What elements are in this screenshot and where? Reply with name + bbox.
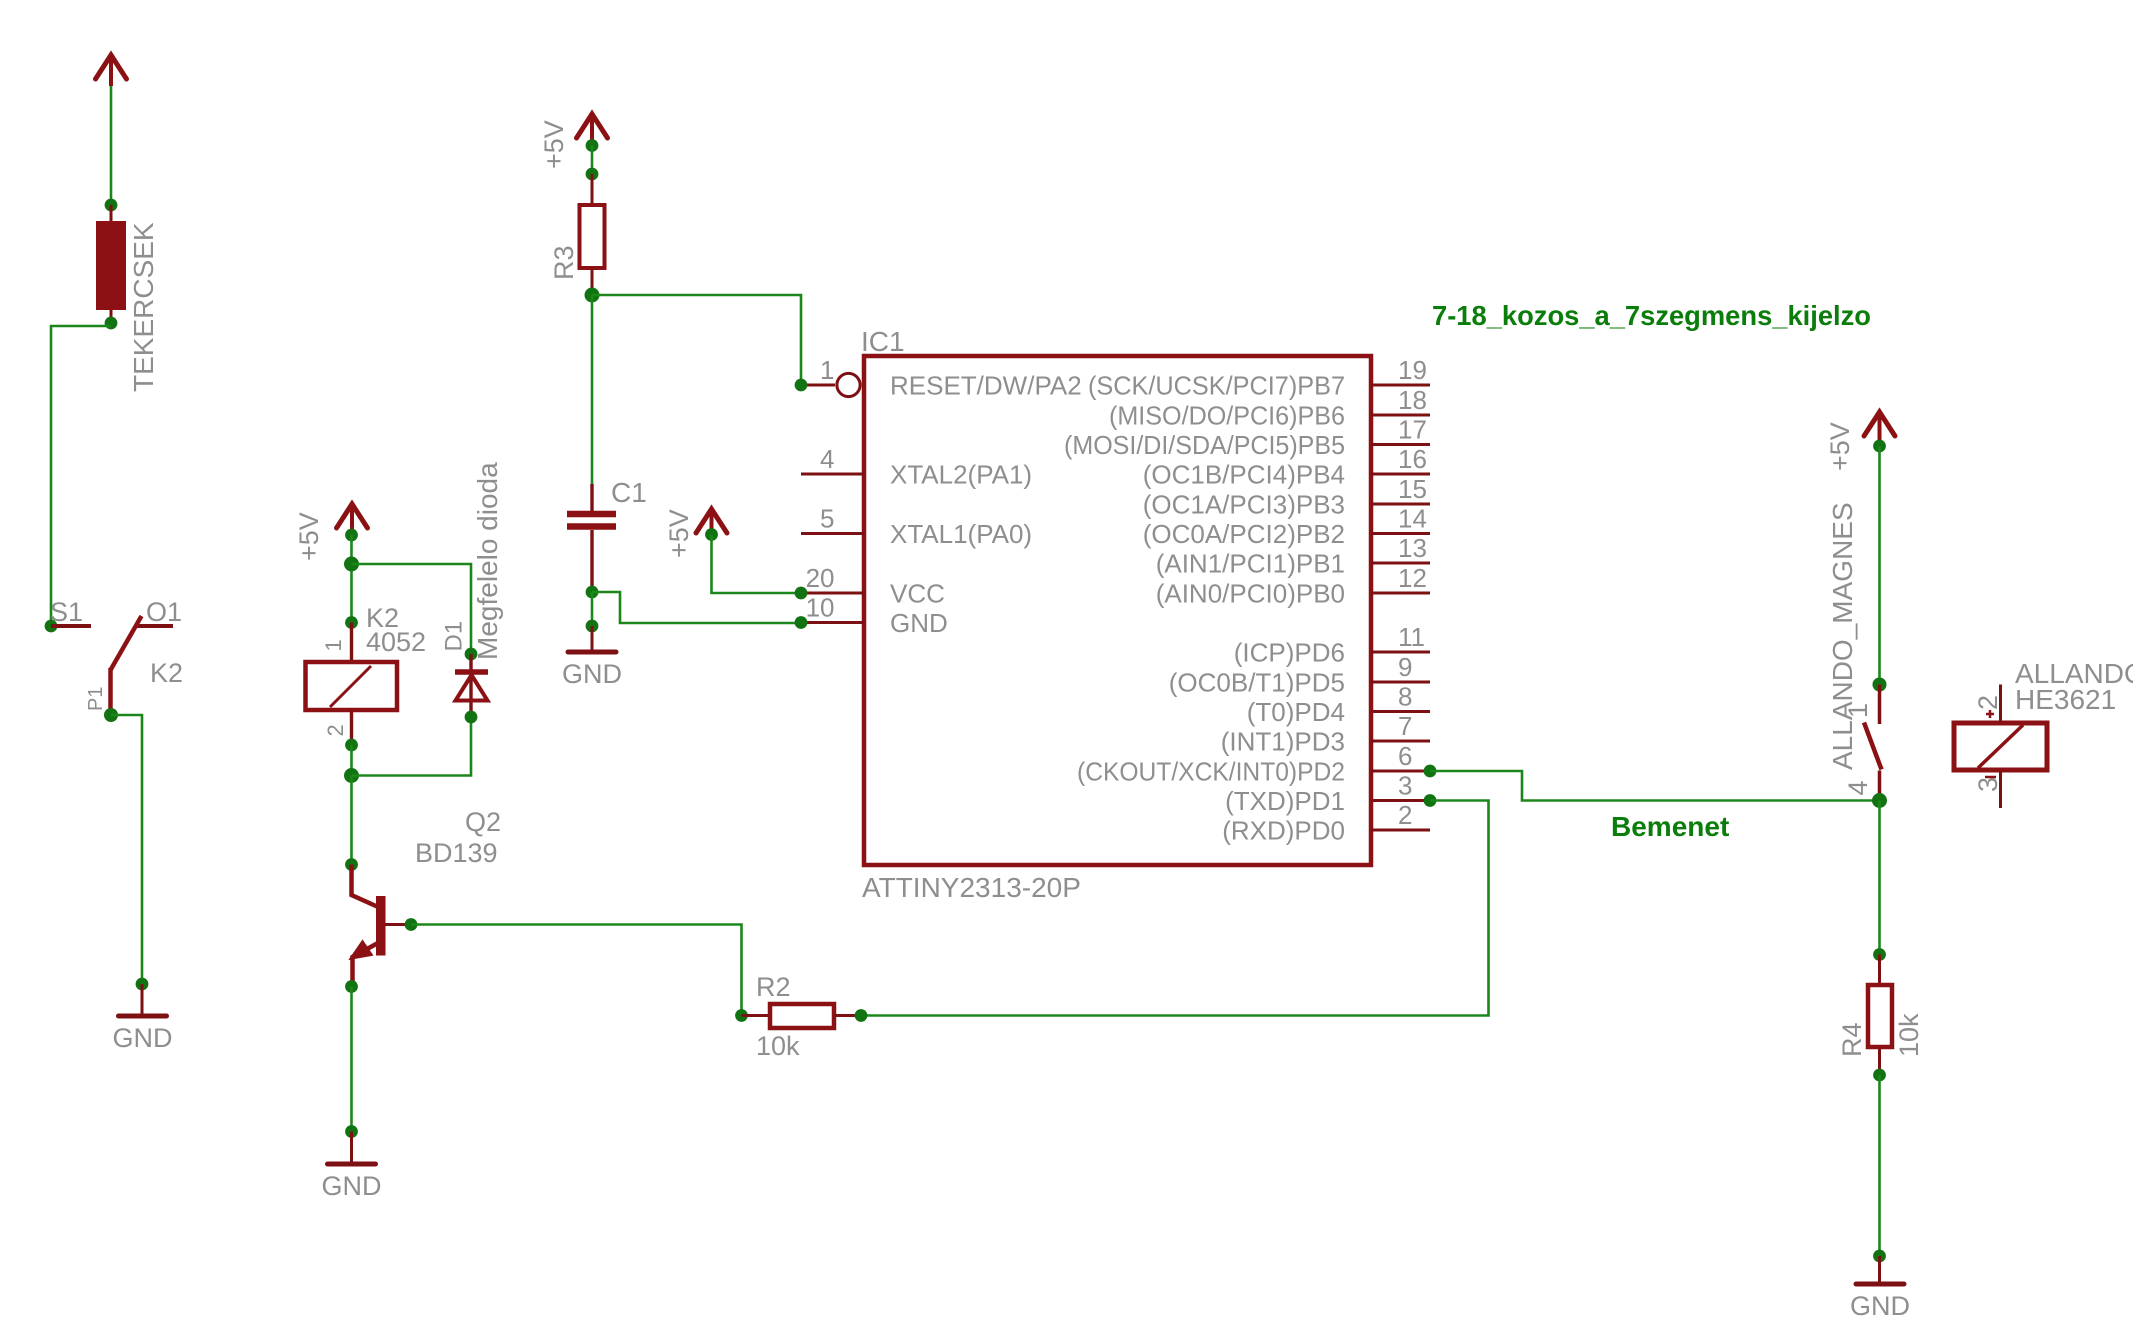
resistor R2 10k — [742, 1014, 771, 1017]
svg-text:R4: R4 — [1837, 1022, 1867, 1057]
IC U1 ATTINY2313-20P body — [864, 356, 1371, 865]
svg-text:Bemenet: Bemenet — [1611, 811, 1729, 842]
power +5V arrow (R3) — [590, 116, 594, 145]
wire R3 to C1 — [591, 295, 594, 484]
svg-text:7-18_kozos_a_7szegmens_kijelzo: 7-18_kozos_a_7szegmens_kijelzo — [1432, 300, 1871, 331]
node above C1 ground — [586, 620, 599, 633]
svg-text:3: 3 — [1398, 771, 1412, 801]
resistor R3 — [591, 174, 594, 205]
svg-text:GND: GND — [562, 659, 622, 689]
IC1 pin 14 (OC0A/PCI2)PB2 — [1371, 532, 1430, 535]
IC1 pin 19 (SCK/UCSK/PCI7)PB7 — [1371, 384, 1430, 387]
wire R4 to ground — [1878, 1075, 1881, 1256]
IC1 pin 16 (OC1B/PCI4)PB4 — [1371, 473, 1430, 476]
node R3 bottom junction — [585, 288, 600, 303]
svg-text:3: 3 — [1973, 777, 2003, 792]
ground (below C1) — [568, 650, 616, 655]
IC1 pin 11 (ICP)PD6 — [1371, 651, 1430, 654]
svg-text:+5V: +5V — [1825, 422, 1855, 471]
node: coil bottom junction — [105, 317, 118, 330]
resistor R4 10k — [1878, 955, 1881, 986]
power +5V arrow (VCC) — [710, 511, 714, 540]
node below +5V arrow — [345, 529, 358, 542]
svg-text:S1: S1 — [50, 597, 83, 627]
svg-text:D1: D1 — [441, 621, 468, 652]
svg-text:(TXD)PD1: (TXD)PD1 — [1225, 786, 1345, 816]
IC1 pin 18 (MISO/DO/PCI6)PB6 — [1371, 414, 1430, 417]
power +5V supply arrow (above TEKERCSEK) — [109, 57, 113, 86]
svg-text:O1: O1 — [146, 597, 182, 627]
ground (below S1) — [119, 1014, 167, 1019]
IC1 pin 6 (CKOUT/XCK/INT0)PD2 — [1371, 770, 1430, 773]
svg-text:ATTINY2313-20P: ATTINY2313-20P — [862, 872, 1081, 903]
svg-text:(CKOUT/XCK/INT0)PD2: (CKOUT/XCK/INT0)PD2 — [1077, 757, 1345, 787]
svg-text:8: 8 — [1398, 682, 1412, 712]
svg-text:(MOSI/DI/SDA/PCI5)PB5: (MOSI/DI/SDA/PCI5)PB5 — [1064, 430, 1345, 460]
svg-text:12: 12 — [1398, 563, 1427, 593]
svg-text:(INT1)PD3: (INT1)PD3 — [1221, 727, 1345, 757]
svg-text:(AIN1/PCI1)PB1: (AIN1/PCI1)PB1 — [1156, 549, 1345, 579]
power +5V arrow (ALLANDO_MAGNES) — [1878, 414, 1882, 443]
svg-text:(SCK/UCSK/PCI7)PB7: (SCK/UCSK/PCI7)PB7 — [1088, 371, 1345, 401]
wire R3 to IC pin1 (RESET) — [592, 295, 801, 385]
svg-text:GND: GND — [890, 608, 948, 638]
svg-text:(OC1A/PCI3)PB3: (OC1A/PCI3)PB3 — [1143, 490, 1345, 520]
IC1 pin 17 (MOSI/DI/SDA/PCI5)PB5 — [1371, 443, 1430, 446]
wire +5V to relay pin 1 — [350, 535, 353, 623]
svg-text:BD139: BD139 — [415, 838, 498, 868]
svg-text:TEKERCSEK: TEKERCSEK — [128, 222, 159, 392]
svg-text:6: 6 — [1398, 741, 1412, 771]
diode D1 (Megfelelo dioda) — [465, 648, 478, 661]
node reed pin4 / Bemenet junction — [1872, 793, 1887, 808]
svg-text:Q2: Q2 — [465, 807, 501, 837]
svg-text:18: 18 — [1398, 385, 1427, 415]
node R4 top — [1873, 948, 1886, 961]
node R2 right — [855, 1009, 868, 1022]
inductor TEKERCSEK (coil) — [110, 205, 113, 221]
node P1 — [104, 708, 118, 722]
node above Q2 ground — [345, 1125, 358, 1138]
IC1 pin 8 (T0)PD4 — [1371, 710, 1430, 713]
svg-text:19: 19 — [1398, 355, 1427, 385]
svg-text:C1: C1 — [611, 477, 647, 508]
svg-text:13: 13 — [1398, 533, 1427, 563]
IC1 pin 7 (INT1)PD3 — [1371, 740, 1430, 743]
svg-text:ALLANDO_MAGNES: ALLANDO_MAGNES — [1827, 502, 1858, 770]
svg-text:HE3621: HE3621 — [2015, 684, 2116, 715]
IC1 pin 3 (TXD)PD1 — [1371, 799, 1430, 802]
svg-text:GND: GND — [322, 1171, 382, 1201]
IC1 pin 9 (OC0B/T1)PD5 — [1371, 681, 1430, 684]
svg-text:(RXD)PD0: (RXD)PD0 — [1222, 816, 1345, 846]
IC1 pin 1 RESET/DW/PA2 — [801, 384, 835, 387]
wire to R3 — [591, 146, 594, 175]
node relay pin2 — [345, 739, 358, 752]
svg-text:5: 5 — [820, 504, 834, 534]
svg-text:1: 1 — [820, 355, 834, 385]
svg-text:XTAL2(PA1): XTAL2(PA1) — [890, 460, 1032, 490]
svg-text:(MISO/DO/PCI6)PB6: (MISO/DO/PCI6)PB6 — [1109, 401, 1345, 431]
switch ALLANDO_MAGNES reed contact — [1873, 678, 1887, 692]
node: coil top junction — [105, 199, 118, 212]
node base — [405, 918, 418, 931]
node: diode return junction — [344, 768, 359, 783]
wire pin3 TXD to R2 — [861, 801, 1489, 1016]
svg-text:(OC1B/PCI4)PB4: (OC1B/PCI4)PB4 — [1143, 460, 1345, 490]
wire emitter to ground — [350, 987, 353, 1132]
svg-text:GND: GND — [1850, 1291, 1910, 1321]
node relay pin1 — [345, 616, 358, 629]
svg-text:20: 20 — [806, 563, 835, 593]
IC1 pin 12 (AIN0/PCI0)PB0 — [1371, 592, 1430, 595]
node emitter — [345, 980, 358, 993]
wire C1 to ground — [591, 592, 594, 626]
IC1 pin 13 (AIN1/PCI1)PB1 — [1371, 562, 1430, 565]
svg-text:P1: P1 — [85, 687, 107, 711]
svg-text:+5V: +5V — [294, 512, 324, 561]
svg-text:2: 2 — [323, 724, 348, 736]
IC1 pin 4 XTAL2(PA1) — [801, 473, 864, 476]
svg-text:IC1: IC1 — [861, 326, 905, 357]
switch contact O1 — [136, 624, 173, 628]
svg-text:(ICP)PD6: (ICP)PD6 — [1234, 638, 1345, 668]
node above left ground — [136, 978, 149, 991]
node R3 pin1 — [586, 168, 599, 181]
svg-text:10k: 10k — [1894, 1013, 1924, 1057]
ground (below Q2) — [328, 1162, 376, 1167]
node C1 bottom — [586, 586, 599, 599]
svg-text:(T0)PD4: (T0)PD4 — [1247, 697, 1345, 727]
node R2 left — [735, 1009, 748, 1022]
svg-text:Megfelelo dioda: Megfelelo dioda — [472, 462, 503, 660]
relay ALLANDO HE3621 body — [1954, 723, 2047, 770]
svg-text:17: 17 — [1398, 415, 1427, 445]
svg-text:XTAL1(PA0): XTAL1(PA0) — [890, 519, 1032, 549]
relay coil K2 4052 — [350, 623, 353, 663]
wire pin6 PD2 to reed switch (Bemenet net) — [1430, 771, 1880, 801]
node below arrow — [586, 139, 599, 152]
svg-text:(AIN0/PCI0)PB0: (AIN0/PCI0)PB0 — [1156, 579, 1345, 609]
svg-text:4: 4 — [1843, 780, 1873, 795]
switch contact S1 — [45, 620, 58, 633]
IC1 pin 20 VCC — [801, 592, 864, 595]
node collector — [345, 858, 358, 871]
svg-text:16: 16 — [1398, 444, 1427, 474]
wire reed switch to R4 — [1878, 801, 1881, 955]
transistor Q2 BD139 — [376, 896, 386, 956]
switch K2 lever — [111, 616, 142, 670]
svg-text:1: 1 — [321, 639, 346, 651]
node below VCC arrow — [705, 528, 718, 541]
wire P1 to ground — [111, 715, 142, 984]
wire branch to D1 top — [352, 564, 472, 654]
svg-text:4052: 4052 — [366, 627, 426, 657]
svg-text:K2: K2 — [150, 658, 183, 688]
svg-text:+5V: +5V — [664, 509, 694, 558]
svg-text:7: 7 — [1398, 711, 1412, 741]
relay HE3621 pin 3 (bottom) — [1999, 770, 2002, 808]
IC1 pin 2 (RXD)PD0 — [1371, 829, 1430, 832]
wire C1 node to IC GND pin 10 — [592, 592, 801, 623]
power +5V arrow (relay K2) — [350, 506, 354, 535]
IC1 pin 5 XTAL1(PA0) — [801, 532, 864, 535]
svg-text:9: 9 — [1398, 652, 1412, 682]
svg-text:14: 14 — [1398, 504, 1427, 534]
ground (below R4) — [1856, 1282, 1904, 1287]
svg-text:(OC0B/T1)PD5: (OC0B/T1)PD5 — [1169, 668, 1345, 698]
capacitor C1 — [590, 484, 593, 511]
svg-text:15: 15 — [1398, 474, 1427, 504]
node IC pin6 — [1424, 765, 1437, 778]
svg-text:2: 2 — [1398, 800, 1412, 830]
IC1 pin 15 (OC1A/PCI3)PB3 — [1371, 503, 1430, 506]
svg-text:(OC0A/PCI2)PB2: (OC0A/PCI2)PB2 — [1143, 519, 1345, 549]
wire relay pin2 down — [350, 745, 353, 776]
svg-text:11: 11 — [1398, 622, 1425, 652]
svg-text:2: 2 — [1973, 695, 2003, 710]
IC1 pin 10 GND — [801, 621, 864, 624]
relay HE3621 pin 2 (top) — [1999, 685, 2002, 724]
svg-text:10: 10 — [806, 593, 835, 623]
node above right ground — [1873, 1250, 1886, 1263]
node below right +5V arrow — [1873, 440, 1886, 453]
node IC pin3 — [1424, 794, 1437, 807]
wire VCC arrow to IC pin 20 — [712, 535, 802, 594]
svg-text:4: 4 — [820, 444, 834, 474]
svg-text:R2: R2 — [756, 972, 791, 1002]
svg-text:+5V: +5V — [539, 120, 569, 169]
node: branch to diode D1 — [344, 557, 359, 572]
wire Q2 base to R2 — [411, 925, 742, 1016]
svg-text:VCC: VCC — [890, 579, 945, 609]
wire junction to transistor collector — [350, 776, 353, 865]
wire from +5V arrow to coil — [110, 86, 113, 205]
svg-text:RESET/DW/PA2: RESET/DW/PA2 — [890, 371, 1082, 401]
wire +5V down to reed switch — [1878, 446, 1881, 685]
svg-text:10k: 10k — [756, 1031, 800, 1061]
wire from coil to switch S1 — [51, 326, 111, 626]
node R4 bottom — [1873, 1069, 1886, 1082]
svg-text:R3: R3 — [549, 245, 579, 280]
wire from D1 bottom to junction — [352, 717, 472, 776]
svg-text:GND: GND — [113, 1023, 173, 1053]
